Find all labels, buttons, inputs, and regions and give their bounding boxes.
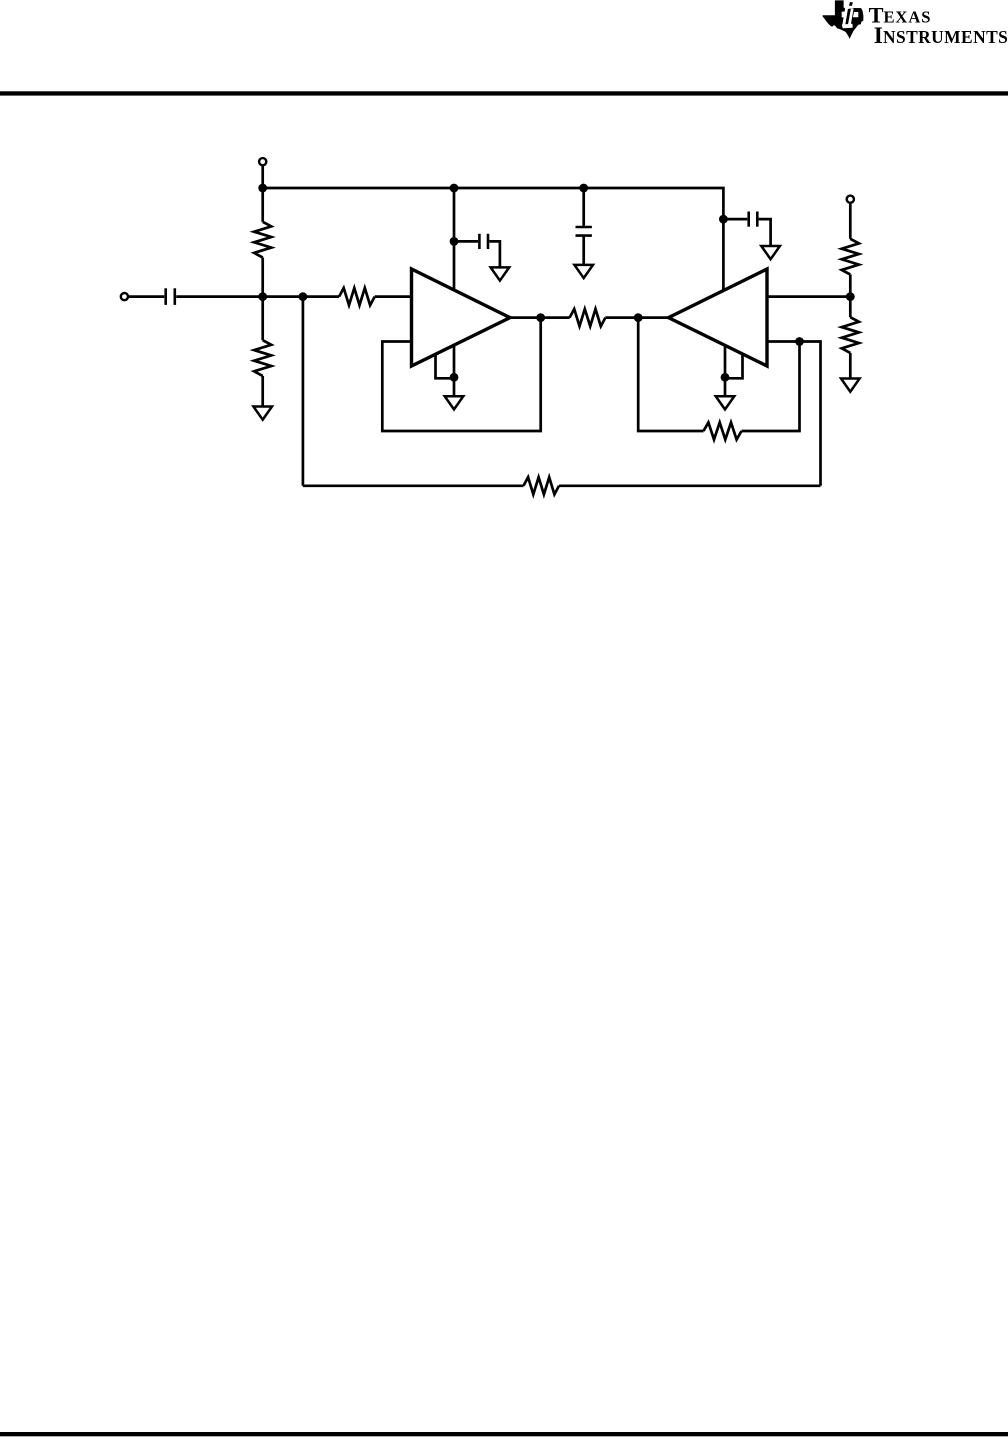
- wire: Cb1 to ground drop: [489, 241, 500, 267]
- TI logo: white letter t (stem + crossbar): [842, 7, 848, 25]
- capacitor Cs (supply) plates: [576, 226, 592, 229]
- svg-text:INSTRUMENTS: INSTRUMENTS: [874, 23, 1008, 49]
- wire: U2 lower pin to bottom row drop: [767, 342, 821, 486]
- node: input/feedback junction: [299, 292, 308, 301]
- wire: U2 pin stub right: [725, 354, 743, 379]
- wire: tap to Cb2: [723, 218, 747, 221]
- wire: node down to bottom feedback row: [302, 297, 305, 486]
- wire: Rt to Rbm: [849, 275, 852, 318]
- node: U2 bypass tap: [719, 215, 728, 224]
- TI logo: white base under letters: [842, 24, 853, 29]
- wire: U1 pin stub right to ground: [453, 345, 456, 397]
- node: U1 output junction: [536, 313, 545, 322]
- wire: bottom row right segment: [559, 484, 821, 487]
- wire: Ci to input node: [176, 295, 303, 298]
- wire: input to Ci: [128, 295, 164, 298]
- node: rail-Cs junction: [579, 184, 588, 193]
- ground: U2: [716, 396, 735, 409]
- wire: Cs to ground: [582, 237, 585, 265]
- wire: U1 feedback loop (inverting input to output): [382, 318, 540, 431]
- wire: top supply rail with corner down to U2: [263, 188, 724, 292]
- wire: rail to Cs: [582, 188, 585, 226]
- node: rail-VDD junction: [258, 184, 267, 193]
- resistor Rbm (right lower) zigzag: [842, 317, 859, 353]
- resistor Rb (bottom loop) zigzag: [524, 477, 560, 494]
- resistor R1 (bias upper) zigzag: [254, 222, 271, 258]
- wire: U2 output: [767, 295, 850, 298]
- terminal: right supply (open circle): [847, 196, 854, 203]
- wire: U1 output to Rm: [510, 316, 570, 319]
- capacitor Ci (input coupling) plates: [164, 288, 167, 305]
- resistor Ri (series input) zigzag: [339, 288, 375, 305]
- wire: node to Ri: [303, 295, 339, 298]
- wire: U2 input node down to Rf row: [638, 318, 703, 431]
- node: rail-U1 supply junction: [450, 184, 459, 193]
- wire: R2 to ground: [261, 376, 264, 407]
- ground: right divider: [841, 379, 860, 392]
- resistor R2 (bias lower) zigzag: [254, 340, 271, 376]
- ground: Cb1: [491, 267, 510, 280]
- wire: Rf up to U2 lower pin node: [742, 342, 800, 432]
- capacitor Cb1 (U1 bypass) plates: [478, 234, 481, 249]
- resistor Rm (between amps) zigzag: [570, 309, 606, 326]
- wire: Rm to U2 input: [605, 316, 669, 319]
- wire: Ri to U1 +input: [375, 295, 412, 298]
- ground: Cb2: [761, 246, 780, 259]
- ground: below R2: [253, 407, 272, 420]
- node: bias divider mid: [258, 292, 267, 301]
- wire: bottom row left segment: [303, 484, 524, 487]
- op-amp U1 (left power amplifier): [412, 269, 511, 366]
- footer rule: [0, 1432, 1008, 1436]
- wire: U1 pin stub left: [436, 354, 455, 379]
- ground: Cs: [574, 265, 593, 278]
- resistor Rt (right upper) zigzag: [842, 239, 859, 275]
- TI logo: white letter i (stem + serif notch): [848, 9, 854, 26]
- op-amp U2 (right power amplifier, mirrored): [669, 269, 768, 366]
- TI logo: black dot of the i: [849, 2, 853, 6]
- node: U2 input junction: [634, 313, 643, 322]
- wire: Rbm to ground: [849, 353, 852, 379]
- ground: U1: [445, 396, 464, 409]
- wire: VDD stem: [261, 166, 264, 189]
- wire: R1 to input node: [261, 258, 264, 297]
- terminal: audio input (open circle): [121, 293, 128, 300]
- node: U1 bypass tap: [450, 237, 459, 246]
- node: U2 ground pins junction: [721, 373, 730, 382]
- capacitor Cb2 (U2 bypass) plates: [747, 212, 750, 227]
- wire: U2 pin stub left to ground: [724, 345, 727, 397]
- node: U1 ground pins junction: [450, 373, 459, 382]
- node: U2 feedback junction: [795, 337, 804, 346]
- wire: terminal to Rt: [849, 203, 852, 239]
- wire: node to R2: [261, 297, 264, 341]
- wire: tap to Cb1: [454, 240, 478, 243]
- TI logo: Texas state silhouette: [823, 0, 864, 39]
- node: output/divider junction: [846, 292, 855, 301]
- wire: Cb2 to ground drop: [759, 219, 771, 246]
- resistor Rf (U2 feedback) zigzag: [704, 422, 742, 439]
- wire: rail to R1: [261, 188, 264, 222]
- header rule: [0, 91, 1008, 95]
- wire: rail into U1 top: [453, 188, 456, 291]
- terminal: VDD input (open circle): [259, 158, 266, 165]
